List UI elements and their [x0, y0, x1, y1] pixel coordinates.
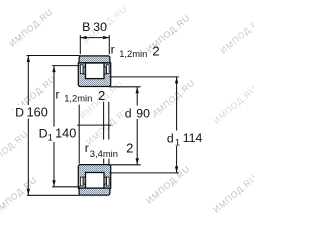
cage lower left [83, 177, 85, 184]
svg-text:30: 30 [93, 20, 107, 34]
arrow d top [136, 87, 139, 93]
svg-text:2: 2 [98, 88, 105, 103]
inner ring upper (wide section) [78, 63, 110, 87]
arrow D bottom [27, 189, 30, 195]
arrow D top [27, 56, 30, 62]
wire chamfer witness right [108, 102, 110, 140]
wire d extension bottom [109, 164, 140, 166]
wire bore silhouette left [78, 105, 80, 164]
wire chamfer tick right lower [108, 159, 110, 166]
wire chamfer tick left lower [103, 159, 105, 166]
arrow D1 top [52, 66, 55, 72]
cage upper left [83, 67, 85, 74]
svg-text:3,4min: 3,4min [90, 148, 118, 159]
wire B extension left [79, 35, 81, 54]
wire chamfer witness left [103, 102, 105, 140]
arrowheads [27, 36, 179, 195]
svg-text:1,2min: 1,2min [119, 48, 147, 59]
wire D extension bottom [27, 194, 80, 196]
roller lower [86, 173, 105, 189]
roller upper [86, 63, 105, 79]
svg-text:D: D [15, 105, 24, 119]
wire d dimension line [136, 87, 138, 165]
svg-text:90: 90 [136, 107, 150, 121]
wire d1 dimension line [176, 77, 178, 173]
svg-text:2: 2 [126, 141, 133, 156]
arrow B right [103, 36, 109, 39]
arrow d1 bottom [175, 166, 178, 172]
outer ring lower band [79, 188, 110, 195]
pocket lower right [106, 177, 109, 186]
svg-text:r: r [111, 42, 115, 56]
svg-text:r: r [56, 87, 60, 101]
wire axis line [77, 124, 111, 126]
wire D dimension line [27, 56, 29, 196]
svg-text:114: 114 [183, 131, 203, 145]
svg-text:140: 140 [55, 127, 76, 141]
inner ring lower (wide section) [78, 165, 110, 189]
wire d1 extension top [109, 76, 178, 78]
svg-text:1: 1 [48, 131, 53, 142]
wire B extension right [108, 35, 110, 54]
bearing upper section [78, 56, 110, 87]
wire B dimension line [80, 37, 109, 39]
arrow D1 bottom [52, 180, 55, 186]
wire D extension top [27, 55, 80, 57]
svg-text:1,2min: 1,2min [64, 93, 92, 104]
svg-text:d: d [125, 107, 132, 121]
arrow B left [80, 36, 86, 39]
svg-text:r: r [85, 141, 89, 155]
arrow d bottom [136, 158, 139, 164]
outer ring upper band [79, 56, 110, 63]
wire d1 extension bottom [109, 172, 178, 174]
bearing lower section [78, 165, 110, 196]
arrow d1 top [175, 77, 178, 83]
svg-text:D: D [39, 127, 48, 141]
pocket upper right [106, 65, 109, 74]
svg-text:2: 2 [152, 43, 159, 58]
svg-text:d: d [167, 132, 174, 146]
pocket upper left [80, 65, 83, 74]
cage lower right [104, 177, 106, 184]
svg-text:160: 160 [27, 105, 48, 119]
svg-text:1: 1 [175, 136, 180, 147]
text halo patches [14, 105, 206, 146]
cage upper right [104, 67, 106, 74]
wire d extension top [109, 86, 140, 88]
svg-text:B: B [82, 20, 90, 34]
pocket lower left [80, 177, 83, 186]
wire D1 extension bottom [52, 186, 80, 188]
wire D1 extension top [52, 65, 80, 67]
wire D1 dimension line [53, 66, 55, 187]
